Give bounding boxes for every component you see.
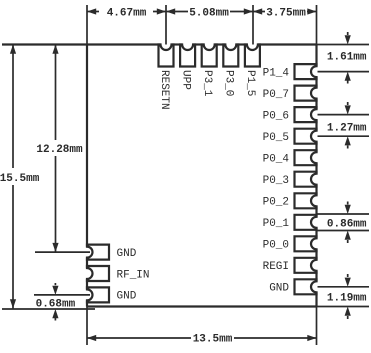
pad GND (right edge castellation) [295,279,317,294]
pad P3_0 (top edge castellation) [223,45,238,67]
svg-text:1.27mm: 1.27mm [327,123,367,135]
pad GND (left edge castellation) [87,287,109,302]
extension: left GND pad centreline [35,251,90,253]
pad RESETN (top edge castellation) [159,45,174,67]
pad P1_4 (right edge castellation) [295,64,317,79]
svg-text:P0_7: P0_7 [263,89,289,101]
pad GND (left edge castellation) [87,245,109,260]
svg-text:REGI: REGI [263,261,289,273]
pad P0_6 (right edge castellation) [295,107,317,122]
module outline: top edge (with notch gaps) [87,43,161,45]
svg-text:P0_3: P0_3 [263,175,289,187]
extension: bottom reference line left [2,308,95,310]
svg-text:RF_IN: RF_IN [117,269,150,281]
extension: right reference at y=136.2 [318,135,370,137]
extension: left edge extended down [86,307,88,346]
svg-text:P0_6: P0_6 [263,110,289,122]
svg-text:P3_0: P3_0 [223,70,235,96]
pad P0_2 (right edge castellation) [295,193,317,208]
svg-text:GND: GND [117,248,137,260]
pad UPP (top edge castellation) [180,45,195,67]
svg-text:P1_5: P1_5 [244,70,256,96]
dimension 1.19mm arrows [347,274,349,277]
pad P0_1 (right edge castellation) [295,215,317,230]
svg-text:1.61mm: 1.61mm [327,52,367,64]
dimension line top (4.67mm / 5.08mm / 3.75mm) [87,11,99,13]
svg-text:0.86mm: 0.86mm [327,219,367,231]
pad P0_5 (right edge castellation) [295,129,317,144]
svg-text:13.5mm: 13.5mm [193,334,233,346]
extension: top edge extended right [317,44,370,46]
extension: P1_5 pad centreline [252,5,254,45]
svg-text:GND: GND [269,283,289,295]
dimension line 13.5mm [87,337,191,339]
pad P1_5 (top edge castellation) [245,45,260,67]
svg-text:5.08mm: 5.08mm [189,8,229,20]
dimension line 15.5mm [12,45,14,169]
svg-text:15.5mm: 15.5mm [0,173,40,185]
extension: bottom edge extended right [317,306,370,308]
dimension line 12.28mm [55,45,57,141]
svg-text:P0_2: P0_2 [263,197,289,209]
svg-text:P3_1: P3_1 [201,70,213,97]
pad P0_7 (right edge castellation) [295,86,317,101]
extension: right edge extended up [316,5,318,45]
svg-text:UPP: UPP [179,70,191,90]
extension: left edge extended up [86,5,88,45]
extension: right reference at y=114.6 [318,114,370,116]
module outline: right edge (with notch gaps) [315,45,317,67]
extension: RESETN pad centreline [165,5,167,45]
dimension 0.68mm arrows [54,283,56,285]
pad P0_4 (right edge castellation) [295,150,317,165]
extension: right edge extended down [316,307,318,346]
svg-text:4.67mm: 4.67mm [107,8,147,20]
svg-text:RESETN: RESETN [158,70,170,110]
dimension 0.86mm arrows [347,202,349,205]
svg-text:P0_5: P0_5 [263,132,289,144]
extension: bottom-left GND pad centreline [34,294,90,296]
extension: right reference at y=71.6 [318,71,370,73]
svg-text:P1_4: P1_4 [263,67,290,79]
svg-text:12.28mm: 12.28mm [36,144,83,156]
extension: right reference at y=214.0 [318,213,370,215]
extension: right reference at y=286.8 [318,286,370,288]
module outline: left edge (with notch gaps) [86,45,88,247]
svg-text:0.68mm: 0.68mm [36,299,76,311]
pad RF_IN (left edge castellation) [87,266,109,281]
svg-text:P0_0: P0_0 [263,240,289,252]
pad P3_1 (top edge castellation) [202,45,217,67]
svg-text:3.75mm: 3.75mm [266,8,306,20]
dimension 1.61mm arrows [347,32,349,35]
extension: top edge extended left [2,43,87,45]
pad P0_3 (right edge castellation) [295,172,317,187]
dimension 1.27mm arrows [347,102,349,105]
pad REGI (right edge castellation) [295,258,317,273]
svg-text:GND: GND [117,291,137,303]
svg-text:P0_1: P0_1 [263,218,290,230]
extension: right reference at y=230.5 [318,230,370,232]
pad P0_0 (right edge castellation) [295,236,317,251]
svg-text:1.19mm: 1.19mm [327,293,367,305]
svg-text:P0_4: P0_4 [263,154,290,166]
module outline: bottom edge [87,305,317,307]
